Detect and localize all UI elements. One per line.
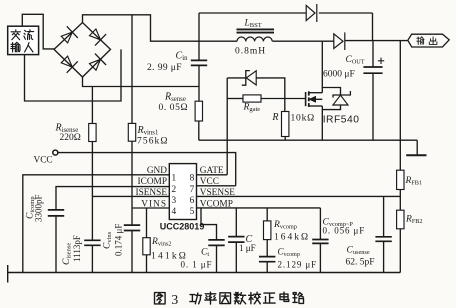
ground rail left end tick bbox=[7, 265, 9, 283]
svg-text:756kΩ: 756kΩ bbox=[137, 137, 169, 147]
wire pin1 GND to ground rail bbox=[23, 175, 170, 273]
svg-text:2: 2 bbox=[172, 185, 177, 195]
wire Cusense top bbox=[383, 196, 385, 236]
svg-text:220Ω: 220Ω bbox=[60, 133, 81, 143]
bridge diode D4 (bottom-right edge) bbox=[90, 59, 101, 70]
svg-text:R: R bbox=[271, 112, 278, 123]
resistor Rsense bbox=[195, 101, 202, 121]
wire pin7 VCC bbox=[197, 185, 236, 187]
svg-text:62. 5pF: 62. 5pF bbox=[346, 258, 375, 268]
resistor Rvins2 bbox=[143, 238, 150, 255]
wire VCC to pin 7 bbox=[58, 153, 236, 186]
label Cicomp bbox=[26, 196, 37, 219]
wire Cusense bottom bbox=[383, 242, 385, 273]
wire bridge- rail bbox=[83, 77, 200, 87]
svg-text:2.129 μF: 2.129 μF bbox=[278, 260, 318, 270]
wire R bottom bbox=[284, 137, 286, 141]
capacitor Cvcomp-P bbox=[312, 239, 328, 241]
svg-text:10kΩ: 10kΩ bbox=[291, 114, 316, 124]
bridge diode D3 (left-bottom edge) bbox=[61, 56, 72, 67]
zener diode DZ triangle bbox=[246, 71, 256, 85]
wire Cvcomp bottom bbox=[266, 262, 268, 272]
VCC terminal circle bbox=[53, 150, 58, 155]
zener diode DZ bar bbox=[242, 71, 250, 86]
AC input source box 交流输入 bbox=[8, 26, 39, 54]
wire GATE pin riser node A bbox=[226, 78, 228, 175]
bridge diode D2 (top-right edge) bbox=[90, 29, 101, 40]
wire source-ground bus bbox=[199, 139, 417, 141]
capacitor Cisense bbox=[84, 239, 100, 241]
wire Risense top bbox=[91, 87, 93, 124]
wire C top bbox=[235, 208, 237, 237]
wire Rvcomp to Cvcomp bbox=[266, 240, 268, 257]
bridge diode D1 (left-top edge) bbox=[61, 32, 72, 43]
bypass diode D5 bbox=[306, 5, 315, 20]
caption 图3 功率因数校正电路 bbox=[155, 293, 166, 304]
wire C bottom bbox=[235, 243, 237, 273]
wire zener right to node B bbox=[256, 78, 285, 112]
wire zener left bbox=[227, 77, 246, 79]
svg-text:8: 8 bbox=[190, 174, 195, 184]
svg-text:164kΩ: 164kΩ bbox=[274, 233, 310, 243]
wire boost diode to output node bbox=[345, 40, 408, 42]
wire pin3 ISENSE bbox=[92, 195, 169, 197]
boost diode D6 bbox=[334, 34, 343, 49]
svg-text:0.174 μF: 0.174 μF bbox=[114, 224, 124, 256]
wire Cvcomp-P bottom bbox=[319, 244, 321, 273]
svg-text:ICOMP: ICOMP bbox=[138, 177, 167, 187]
resistor RFB1 bbox=[397, 170, 404, 189]
value 0.174uF bbox=[114, 224, 124, 256]
wire Ct bottom bbox=[216, 246, 218, 273]
resistor Risense bbox=[89, 124, 96, 142]
capacitor Cout bbox=[363, 66, 382, 68]
capacitor Cicomp bbox=[48, 209, 64, 211]
wire Risense bottom to ISENSE and Cisense bbox=[91, 142, 93, 241]
wire inductor to boost diode bbox=[272, 40, 333, 42]
capacitor Cvins bbox=[124, 224, 140, 226]
svg-text:UCC28019: UCC28019 bbox=[160, 222, 205, 232]
capacitor Cvcomp bbox=[259, 256, 275, 258]
svg-text:4: 4 bbox=[172, 207, 177, 217]
label Cvins bbox=[103, 231, 114, 249]
wire Rvins1 top feed bbox=[131, 15, 133, 124]
wire Cin top bbox=[198, 41, 200, 60]
svg-text:0. 05Ω: 0. 05Ω bbox=[159, 103, 189, 113]
wire pin5 VCOMP bbox=[197, 207, 321, 209]
svg-text:5: 5 bbox=[190, 207, 195, 217]
ground symbol bbox=[406, 154, 426, 156]
svg-text:3: 3 bbox=[171, 293, 178, 308]
wire RFB1-RFB2 bbox=[399, 190, 401, 211]
wire pin6 VSENSE bbox=[197, 195, 401, 197]
svg-text:0. 056 μF: 0. 056 μF bbox=[323, 226, 366, 236]
svg-text:1113pF: 1113pF bbox=[72, 235, 82, 262]
wire AC bottom terminal to bridge right vertex bbox=[25, 49, 122, 101]
wire node Cin-top rail up and bypass rail bbox=[198, 13, 200, 41]
wire Cout top bbox=[372, 41, 374, 66]
IC U1 UCC28019 body bbox=[169, 164, 196, 220]
wire pin8 GATE bbox=[197, 174, 228, 176]
output flag 输出 bbox=[408, 34, 449, 47]
svg-text:3: 3 bbox=[172, 196, 177, 206]
wire Rgate left bbox=[227, 98, 243, 100]
wire AC top terminal to bridge left vertex bbox=[22, 14, 54, 49]
wire Rsense top bbox=[198, 87, 200, 102]
wire pin4 VINS bbox=[132, 207, 169, 209]
svg-text:VCC: VCC bbox=[34, 156, 53, 166]
value 3300pF bbox=[34, 194, 44, 222]
capacitor Cin bbox=[191, 59, 207, 61]
wire Rvcomp top bbox=[266, 208, 268, 221]
wire pin2 ICOMP bbox=[56, 187, 169, 210]
svg-text:0. 1 μF: 0. 1 μF bbox=[181, 260, 213, 270]
svg-text:IRF540: IRF540 bbox=[323, 114, 360, 125]
capacitor Ct bbox=[208, 239, 224, 241]
svg-text:0.8mH: 0.8mH bbox=[235, 47, 266, 57]
wire Cvins top bbox=[131, 208, 133, 225]
wire Cin bottom to minus rail bbox=[198, 66, 200, 87]
wire bridge+ to top rail bbox=[83, 15, 200, 41]
wire Rvins1 bottom to VINS bbox=[131, 141, 133, 208]
svg-text:1 μF: 1 μF bbox=[239, 243, 256, 253]
body diode of Q1 bbox=[322, 88, 340, 96]
bridge rectifier diamond wires bbox=[54, 23, 111, 78]
wire Ct dogleg bbox=[201, 208, 217, 240]
wire RFB2 bottom to ground rail bbox=[399, 229, 401, 273]
wire Rgate right to MOSFET gate bbox=[261, 98, 306, 100]
wire Cvcomp-P top bbox=[319, 208, 321, 240]
label Cisense bbox=[62, 243, 73, 265]
transistor Q1 IRF540 MOSFET symbol bbox=[305, 92, 307, 106]
capacitor Cout plus sign bbox=[378, 60, 384, 62]
svg-text:6000 μF: 6000 μF bbox=[323, 70, 355, 80]
inductor LBST 0.8mH bbox=[237, 28, 275, 30]
svg-text:6: 6 bbox=[190, 196, 195, 206]
resistor RFB2 bbox=[397, 210, 404, 229]
wire output to RFB1 bbox=[399, 41, 401, 171]
resistor Rgate bbox=[243, 95, 261, 102]
ground rail bbox=[8, 272, 401, 274]
wire Cicomp bottom bbox=[55, 216, 57, 272]
capacitor C bbox=[228, 236, 244, 238]
wire Cvins bottom bbox=[131, 231, 133, 273]
capacitor Cusense bbox=[375, 236, 391, 238]
resistor Rvins1 bbox=[128, 123, 135, 141]
resistor Rvcomp bbox=[264, 221, 271, 240]
wire Rvins2 bottom bbox=[146, 255, 148, 273]
svg-text:1: 1 bbox=[172, 174, 177, 184]
wire Rvins2 top bbox=[146, 208, 148, 238]
wire Cisense bottom bbox=[91, 246, 93, 273]
wire ground stub bbox=[416, 140, 418, 155]
wire rail to boost inductor bbox=[199, 40, 237, 42]
value 1113pF bbox=[72, 235, 82, 262]
wire Cout bottom bbox=[372, 74, 374, 141]
svg-text:2. 99 μF: 2. 99 μF bbox=[147, 63, 182, 73]
svg-text:3300pF: 3300pF bbox=[34, 194, 44, 222]
svg-text:7: 7 bbox=[190, 185, 195, 195]
resistor R 10k bbox=[282, 112, 289, 137]
wire Rsense bottom to shunt wire bbox=[198, 121, 200, 140]
